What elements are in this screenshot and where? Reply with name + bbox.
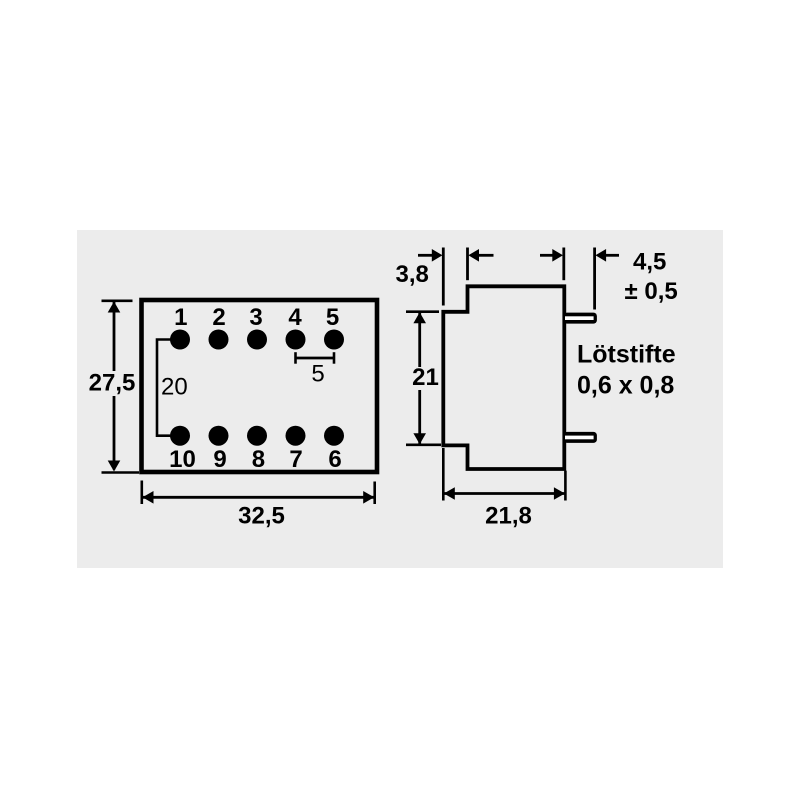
dimension 27,5 (height, left side) bbox=[102, 299, 133, 302]
svg-text:27,5: 27,5 bbox=[89, 370, 136, 397]
svg-text:10: 10 bbox=[169, 446, 196, 473]
pin 3 bbox=[247, 330, 267, 350]
svg-text:3: 3 bbox=[249, 304, 262, 331]
dimension 4,5 left arrow bbox=[540, 254, 553, 257]
svg-text:4: 4 bbox=[288, 304, 302, 331]
svg-text:2: 2 bbox=[212, 304, 225, 331]
svg-text:Lötstifte: Lötstifte bbox=[577, 341, 676, 369]
svg-text:5: 5 bbox=[311, 361, 324, 388]
svg-text:± 0,5: ± 0,5 bbox=[625, 278, 678, 305]
svg-text:0,6 x 0,8: 0,6 x 0,8 bbox=[577, 372, 674, 400]
dimension bracket 5 (pin pitch between pins 4 and 5) bbox=[296, 357, 335, 360]
svg-text:6: 6 bbox=[328, 446, 341, 473]
dimension bracket 20 (pin row spacing) bbox=[157, 340, 172, 436]
dimension 21,8 (bottom width) bbox=[442, 448, 445, 501]
pin 10 bbox=[170, 426, 190, 446]
svg-text:21,8: 21,8 bbox=[485, 502, 532, 529]
dimension 4,5 extension line at pin tip bbox=[593, 248, 596, 310]
svg-text:3,8: 3,8 bbox=[396, 261, 429, 288]
svg-text:9: 9 bbox=[213, 446, 226, 473]
pin 8 bbox=[247, 426, 267, 446]
dimension 3,8 extension line at step edge bbox=[466, 248, 469, 281]
pin 5 bbox=[324, 330, 344, 350]
pin 7 bbox=[286, 426, 306, 446]
dimension 4,5 right arrow bbox=[595, 249, 606, 262]
pin 1 bbox=[170, 330, 190, 350]
svg-text:8: 8 bbox=[252, 446, 265, 473]
solder pin top (side view) bbox=[564, 313, 597, 324]
transformer side body outline bbox=[443, 286, 564, 469]
pin 4 bbox=[286, 330, 306, 350]
svg-text:7: 7 bbox=[289, 446, 302, 473]
pin 2 bbox=[209, 330, 229, 350]
dimension 3,8 right arrow bbox=[468, 249, 479, 262]
solder pin bottom (side view) bbox=[564, 432, 597, 443]
svg-text:5: 5 bbox=[326, 304, 339, 331]
dimension 3,8 extension line at body left edge bbox=[442, 248, 445, 306]
pin 6 bbox=[324, 426, 344, 446]
gray drawing panel bbox=[77, 230, 723, 568]
transformer body outline bbox=[142, 300, 378, 472]
svg-text:21: 21 bbox=[412, 364, 439, 391]
dimension 3,8 left arrow bbox=[418, 254, 433, 257]
svg-text:4,5: 4,5 bbox=[633, 249, 666, 276]
svg-text:20: 20 bbox=[161, 374, 188, 401]
pin 9 bbox=[209, 426, 229, 446]
svg-text:1: 1 bbox=[174, 304, 187, 331]
svg-text:32,5: 32,5 bbox=[238, 502, 285, 529]
dimension 32,5 (width, bottom) bbox=[141, 481, 144, 505]
dimension 4,5 extension line at body right edge bbox=[562, 248, 565, 281]
dimension 21 (left side height) bbox=[406, 310, 439, 313]
